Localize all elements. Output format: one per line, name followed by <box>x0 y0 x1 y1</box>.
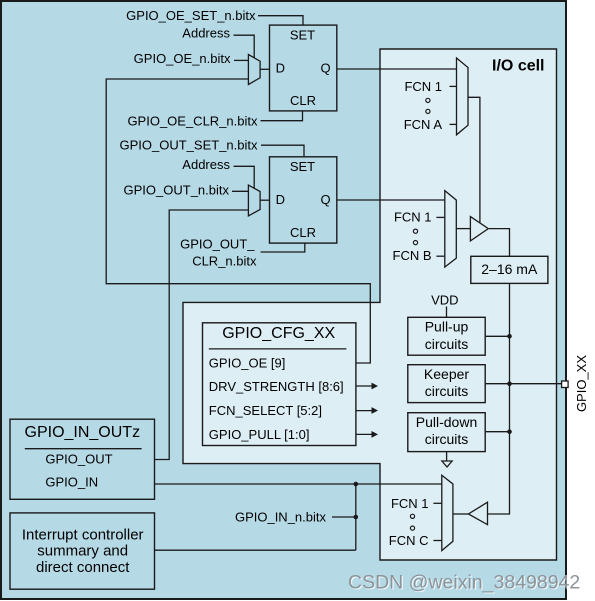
svg-text:2–16 mA: 2–16 mA <box>481 261 538 277</box>
svg-text:CLR_n.bitx: CLR_n.bitx <box>192 253 257 268</box>
svg-text:GPIO_OE_SET_n.bitx: GPIO_OE_SET_n.bitx <box>126 8 256 23</box>
svg-text:Interrupt controller: Interrupt controller <box>22 527 144 544</box>
svg-text:GPIO_IN_OUTz: GPIO_IN_OUTz <box>25 424 141 441</box>
svg-text:GPIO_OE_CLR_n.bitx: GPIO_OE_CLR_n.bitx <box>127 113 258 128</box>
svg-text:D: D <box>276 192 285 207</box>
svg-text:I/O cell: I/O cell <box>492 58 544 75</box>
svg-text:Address: Address <box>182 26 230 41</box>
svg-text:GPIO_CFG_XX: GPIO_CFG_XX <box>222 325 335 342</box>
svg-text:FCN 1: FCN 1 <box>394 210 432 225</box>
svg-text:DRV_STRENGTH [8:6]: DRV_STRENGTH [8:6] <box>209 379 344 394</box>
svg-text:GPIO_OE [9]: GPIO_OE [9] <box>209 356 286 371</box>
svg-text:Q: Q <box>320 192 330 207</box>
svg-text:FCN_SELECT [5:2]: FCN_SELECT [5:2] <box>209 403 322 418</box>
svg-text:Pull-down: Pull-down <box>416 414 477 430</box>
svg-text:Pull-up: Pull-up <box>425 319 469 335</box>
svg-text:Keeper: Keeper <box>424 366 469 382</box>
svg-text:FCN 1: FCN 1 <box>391 496 429 511</box>
svg-text:Q: Q <box>320 60 330 75</box>
svg-text:GPIO_OUT_n.bitx: GPIO_OUT_n.bitx <box>124 182 230 197</box>
svg-text:GPIO_OUT: GPIO_OUT <box>45 451 112 466</box>
svg-text:GPIO_OE_n.bitx: GPIO_OE_n.bitx <box>134 51 231 66</box>
svg-text:circuits: circuits <box>425 383 469 399</box>
svg-text:circuits: circuits <box>425 431 469 447</box>
svg-text:FCN A: FCN A <box>404 117 443 132</box>
svg-text:Address: Address <box>182 157 230 172</box>
svg-text:GPIO_PULL [1:0]: GPIO_PULL [1:0] <box>209 427 310 442</box>
svg-text:GPIO_IN: GPIO_IN <box>45 475 98 490</box>
svg-text:FCN 1: FCN 1 <box>404 79 442 94</box>
svg-text:CSDN @weixin_38498942: CSDN @weixin_38498942 <box>348 572 580 594</box>
svg-text:circuits: circuits <box>425 336 469 352</box>
svg-text:summary and: summary and <box>37 542 128 559</box>
svg-text:D: D <box>276 60 285 75</box>
svg-text:CLR: CLR <box>290 93 316 108</box>
svg-text:FCN C: FCN C <box>389 533 429 548</box>
svg-text:CLR: CLR <box>290 225 316 240</box>
svg-text:VDD: VDD <box>431 292 458 307</box>
svg-text:GPIO_XX: GPIO_XX <box>574 355 589 412</box>
svg-text:SET: SET <box>290 159 315 174</box>
svg-text:GPIO_IN_n.bitx: GPIO_IN_n.bitx <box>235 510 327 525</box>
svg-text:FCN B: FCN B <box>393 248 432 263</box>
svg-text:SET: SET <box>290 28 315 43</box>
svg-text:GPIO_OUT_SET_n.bitx: GPIO_OUT_SET_n.bitx <box>120 137 258 152</box>
svg-text:GPIO_OUT_: GPIO_OUT_ <box>180 237 255 252</box>
svg-text:direct connect: direct connect <box>36 559 130 576</box>
